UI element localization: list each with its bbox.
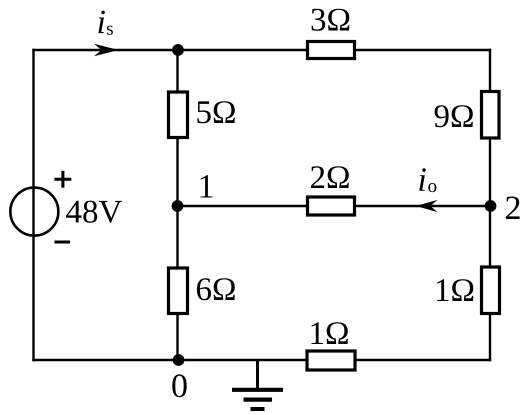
label 3ohm xyxy=(312,9,350,31)
label 2ohm xyxy=(311,166,349,188)
resistor 5ohm xyxy=(169,92,188,138)
arrow i_s on top wire xyxy=(94,44,119,56)
wire: right vertical xyxy=(489,49,491,361)
node 0 dot xyxy=(173,354,185,366)
label 6ohm xyxy=(197,278,235,300)
voltage source 48V xyxy=(10,188,58,236)
resistor 3ohm xyxy=(308,42,355,59)
label i_o xyxy=(419,168,426,191)
wire: middle horizontal node1-node2 xyxy=(178,205,491,207)
label 1ohm bottom xyxy=(311,322,347,344)
node dot: top junction xyxy=(172,44,184,56)
resistor 1ohm right xyxy=(482,267,500,314)
resistor 9ohm xyxy=(482,92,500,139)
label minus xyxy=(55,241,71,244)
wire: bottom horizontal xyxy=(32,359,491,361)
wire: middle vertical branch xyxy=(176,50,178,360)
resistor 2ohm xyxy=(308,197,355,215)
label 5ohm xyxy=(197,101,234,123)
wire: left vertical (source branch) xyxy=(32,49,34,361)
ground symbol xyxy=(232,360,283,409)
label node 1 xyxy=(201,175,213,197)
node 2 dot xyxy=(485,200,497,212)
resistor 6ohm xyxy=(169,268,188,314)
arrow i_o on middle wire xyxy=(416,200,438,212)
label node 2 xyxy=(506,197,520,220)
label 48V xyxy=(66,201,122,223)
label 1ohm right xyxy=(437,279,473,301)
label 9ohm xyxy=(435,105,473,127)
label node 0 xyxy=(172,374,186,397)
label + xyxy=(54,171,71,188)
label i_s xyxy=(98,11,105,33)
resistor 1ohm bottom xyxy=(307,351,355,370)
node 1 dot xyxy=(172,200,184,212)
wire: top horizontal xyxy=(32,49,491,51)
